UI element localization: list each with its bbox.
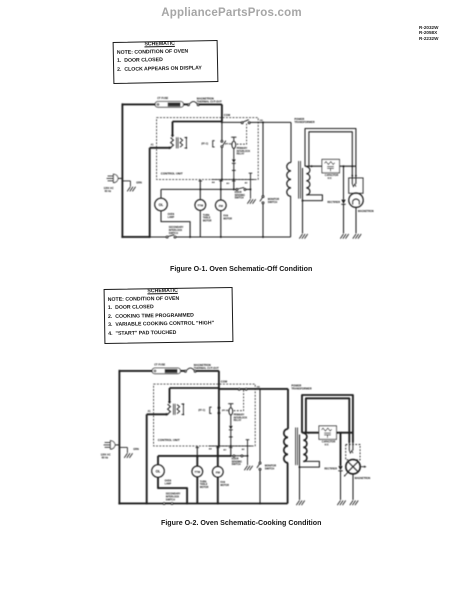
wire latch switch feed bbox=[219, 388, 238, 390]
ground rectifier bbox=[340, 234, 343, 239]
wire latch switch to node GD bbox=[250, 121, 263, 123]
wire plug to rail bbox=[115, 444, 119, 446]
svg-text:RELAY: RELAY bbox=[237, 153, 245, 156]
svg-text:(RY-A): (RY-A) bbox=[225, 142, 232, 145]
control unit U1 enclosure bbox=[157, 118, 259, 180]
svg-text:OL: OL bbox=[156, 470, 161, 474]
wire latch switch to node GD bbox=[247, 388, 260, 390]
mechanical link dashed from latch switch to relay bbox=[236, 124, 246, 145]
svg-text:THERMAL CUT-OUT: THERMAL CUT-OUT bbox=[194, 366, 219, 370]
svg-text:SWITCH: SWITCH bbox=[166, 499, 175, 501]
svg-text:MOTOR: MOTOR bbox=[203, 221, 212, 223]
wire rail through relay contact bbox=[218, 388, 220, 407]
svg-text:OVEN: OVEN bbox=[165, 481, 172, 483]
svg-text:FAN: FAN bbox=[220, 481, 225, 484]
diode D1 in relay chain bbox=[232, 159, 236, 163]
AC plug P1 bbox=[108, 175, 114, 177]
wire latch switch feed bbox=[222, 121, 241, 123]
svg-text:TABLE: TABLE bbox=[203, 217, 211, 220]
svg-text:SWITCH: SWITCH bbox=[268, 201, 278, 204]
wire capacitor output bbox=[336, 432, 353, 434]
wire rail through relay contact bbox=[221, 122, 223, 141]
wire secondary cold end Z-step bbox=[300, 461, 320, 467]
svg-text:H.V.: H.V. bbox=[328, 178, 333, 180]
wire neutral drop to bottom rail bbox=[146, 414, 148, 504]
ground magnetron bbox=[353, 234, 356, 239]
wire motor bus bbox=[158, 455, 231, 457]
relay RY1 coil (primary interlock relay) bbox=[231, 136, 236, 138]
caption figure O-2 bbox=[161, 519, 321, 527]
svg-text:CAPACITOR: CAPACITOR bbox=[325, 174, 339, 177]
terminal tick in relay chain bbox=[232, 169, 236, 171]
magnetron output arrow right bbox=[361, 466, 365, 468]
wire filament winding ground drop bbox=[302, 168, 304, 233]
wire rail down from cut-out corner bbox=[221, 104, 223, 121]
wire capacitor output bbox=[339, 165, 356, 167]
svg-text:GRN: GRN bbox=[133, 448, 139, 451]
diode D1 in relay chain bbox=[229, 426, 233, 430]
magnetron wave arrow lower-left bbox=[345, 472, 348, 476]
wire magnetron to ground bbox=[355, 207, 357, 233]
switch S4 monitor bbox=[262, 196, 264, 198]
svg-text:TURN: TURN bbox=[200, 481, 207, 483]
relay RY1 coil (primary interlock relay) bbox=[228, 403, 233, 405]
wire secondary cold end Z-step bbox=[303, 195, 323, 201]
wire monitor switch branch bbox=[259, 389, 261, 462]
svg-text:MAGNETRON: MAGNETRON bbox=[358, 210, 374, 213]
svg-text:A4: A4 bbox=[209, 448, 213, 451]
svg-text:LAMP: LAMP bbox=[165, 482, 172, 485]
wire TTM to bottom rail bbox=[199, 210, 201, 237]
switch S1 oven latch bbox=[238, 388, 240, 390]
capacitor C1 HV assembly box bbox=[322, 159, 339, 172]
wire oven lamp detour to rail bbox=[161, 211, 190, 237]
transformer T1 secondary HV winding bbox=[306, 167, 310, 195]
fuse F1 (CT FUSE) bbox=[152, 368, 180, 374]
ground chassis (GRN) bbox=[124, 453, 127, 458]
svg-text:TABLE: TABLE bbox=[200, 483, 208, 486]
wire terminal row bbox=[211, 179, 255, 181]
wire LVT return to neutral bbox=[150, 147, 170, 149]
wire left rail (line side) bbox=[118, 370, 120, 505]
svg-text:FAN: FAN bbox=[223, 215, 228, 218]
wire fuse to thermal cut-out bbox=[180, 370, 184, 372]
terminal tick A2 bbox=[229, 447, 233, 449]
thermal cut-out TC1 (magnetron thermal cut-out) bbox=[184, 370, 186, 372]
ground stub at door switch bbox=[250, 189, 252, 198]
transformer T2 LVT (low voltage) bbox=[168, 404, 171, 414]
ground transformer secondary bbox=[296, 501, 299, 506]
svg-text:CT FUSE: CT FUSE bbox=[157, 96, 168, 100]
svg-text:LAMP: LAMP bbox=[168, 216, 175, 219]
svg-text:MOTOR: MOTOR bbox=[223, 218, 232, 220]
svg-text:INTERLOCK: INTERLOCK bbox=[169, 230, 183, 232]
svg-text:A2: A2 bbox=[245, 181, 249, 184]
node GD junction bbox=[262, 121, 264, 123]
svg-text:60 Hz: 60 Hz bbox=[105, 190, 112, 193]
wire primary return to bottom rail bbox=[287, 463, 289, 504]
wire bottom rail bold segment bbox=[118, 502, 146, 504]
fan motor FM bbox=[220, 189, 222, 200]
wire bottom rail neutral bbox=[150, 236, 166, 238]
oven lamp OL bbox=[157, 456, 159, 465]
wire fuse to thermal cut-out bbox=[183, 103, 187, 105]
wire monitor switch to bottom rail bbox=[262, 204, 264, 237]
terminal tick A3 bbox=[216, 447, 220, 449]
wire primary return to bottom rail bbox=[290, 196, 292, 237]
terminal tick A4 bbox=[199, 180, 203, 182]
magnetron tube bbox=[349, 193, 363, 207]
turntable motor TTM bbox=[196, 456, 198, 466]
model number list bbox=[419, 25, 438, 42]
svg-text:GD: GD bbox=[260, 120, 264, 122]
wire relay chain drop bbox=[233, 180, 235, 190]
transformer core bbox=[295, 428, 297, 466]
svg-text:MAGNETRON: MAGNETRON bbox=[355, 477, 371, 480]
wire motor bus bbox=[161, 188, 234, 190]
svg-text:TURN: TURN bbox=[203, 215, 210, 217]
ground magnetron bbox=[350, 501, 353, 506]
wire to power transformer primary bbox=[263, 121, 291, 123]
wire monitor switch to bottom rail bbox=[259, 470, 261, 503]
thermal cut-out TC1 (magnetron thermal cut-out) bbox=[187, 104, 189, 106]
wire bold feed to LVT primary top bbox=[173, 121, 222, 123]
magnetron filament leads bbox=[348, 441, 350, 443]
svg-text:RELAY: RELAY bbox=[234, 419, 242, 422]
wire filament lead A riser bbox=[302, 395, 353, 442]
wire rail below contact to terminal row bbox=[218, 414, 220, 446]
magnetron tube bbox=[346, 460, 360, 474]
ground rectifier bbox=[337, 501, 340, 506]
turntable motor TTM bbox=[199, 189, 201, 199]
AC plug P1 bbox=[105, 442, 111, 444]
wire HV tap to capacitor bbox=[302, 432, 319, 434]
wire TTM drop from control unit bbox=[196, 446, 198, 456]
wire filament lead B riser bbox=[309, 132, 352, 176]
wire filament lead A riser bbox=[305, 129, 356, 176]
svg-text:COM: COM bbox=[224, 113, 231, 117]
svg-text:DOOR: DOOR bbox=[235, 192, 242, 194]
svg-text:OVEN: OVEN bbox=[168, 214, 175, 216]
wire top feed from plug rail to fuse bbox=[122, 103, 155, 105]
wire FM drop from control unit bbox=[220, 180, 222, 190]
transformer T1 primary winding bbox=[287, 162, 291, 196]
ground chassis (GRN) bbox=[127, 187, 130, 192]
wire left rail (line side) bbox=[121, 103, 123, 238]
control unit U1 enclosure bbox=[154, 384, 256, 446]
switch S3 door sensing bbox=[233, 455, 235, 457]
svg-text:SECONDARY: SECONDARY bbox=[169, 226, 184, 229]
svg-text:SENSING: SENSING bbox=[232, 461, 243, 463]
svg-text:CONTROL UNIT: CONTROL UNIT bbox=[161, 171, 183, 175]
svg-text:SWITCH: SWITCH bbox=[232, 464, 241, 466]
svg-text:TRANSFORMER: TRANSFORMER bbox=[291, 386, 311, 390]
wire bus to door sensing switch bbox=[234, 188, 236, 190]
wire filament winding ground drop bbox=[299, 435, 301, 500]
wire TTM to bottom rail bbox=[196, 477, 198, 504]
wire neutral drop to bottom rail bbox=[149, 148, 151, 238]
ground stub at door switch bbox=[247, 456, 249, 465]
svg-text:INTERLOCK: INTERLOCK bbox=[234, 417, 248, 419]
svg-text:INTERLOCK: INTERLOCK bbox=[166, 497, 180, 499]
svg-text:A3: A3 bbox=[226, 182, 230, 185]
wire FM to bottom rail bbox=[217, 477, 219, 503]
svg-text:SENSING: SENSING bbox=[235, 195, 246, 197]
svg-text:TTM: TTM bbox=[195, 470, 201, 474]
switch S3 door sensing bbox=[236, 188, 238, 190]
transformer T1 secondary HV winding bbox=[303, 433, 307, 461]
note box 1: schematic off-condition notes bbox=[112, 39, 218, 83]
wire magnetron to ground bbox=[352, 474, 354, 500]
svg-text:GRN: GRN bbox=[136, 181, 142, 184]
svg-text:SWITCH: SWITCH bbox=[235, 198, 244, 200]
magnetron V1 housing bbox=[349, 178, 363, 193]
transformer T2 LVT (low voltage) bbox=[171, 138, 174, 148]
svg-text:A3: A3 bbox=[223, 449, 227, 452]
oven lamp OL bbox=[160, 189, 162, 198]
wire TTM drop from control unit bbox=[199, 180, 201, 190]
wire GRN ground stub bbox=[122, 180, 130, 182]
mechanical link dashed from latch switch to relay bbox=[233, 390, 243, 411]
wire bus to door sensing switch bbox=[231, 455, 233, 457]
wire HV tap to capacitor bbox=[305, 165, 322, 167]
svg-text:TTM: TTM bbox=[198, 204, 204, 208]
wire bottom rail bold segment bbox=[121, 236, 149, 238]
switch S1 oven latch bbox=[241, 122, 243, 124]
svg-text:TRANSFORMER: TRANSFORMER bbox=[294, 120, 314, 124]
svg-text:RECTIFIER: RECTIFIER bbox=[327, 201, 340, 204]
wire monitor switch branch bbox=[262, 122, 264, 195]
wire thermal cut-out to rail corner bbox=[196, 370, 219, 372]
wire top feed from plug rail to fuse bbox=[119, 370, 152, 372]
wire door switch to junction bbox=[243, 455, 248, 457]
note box 2: schematic cooking-condition notes bbox=[103, 287, 233, 344]
svg-text:FM: FM bbox=[216, 470, 221, 474]
transformer core bbox=[298, 161, 300, 199]
svg-text:A2: A2 bbox=[242, 448, 246, 451]
wire rail down from cut-out corner bbox=[218, 371, 220, 388]
svg-text:RECTIFIER: RECTIFIER bbox=[324, 468, 337, 471]
wire door switch to junction bbox=[246, 188, 251, 190]
svg-text:A1: A1 bbox=[151, 143, 155, 146]
svg-text:CAPACITOR: CAPACITOR bbox=[322, 441, 336, 444]
svg-text:H.V.: H.V. bbox=[325, 445, 330, 447]
wire FM to bottom rail bbox=[220, 211, 222, 237]
svg-text:PRIMARY: PRIMARY bbox=[234, 414, 245, 417]
caption figure O-1 bbox=[170, 265, 312, 273]
wire bold feed to LVT primary top bbox=[170, 387, 219, 389]
switch S2 secondary interlock on bottom rail bbox=[166, 236, 168, 238]
svg-text:MOTOR: MOTOR bbox=[220, 485, 229, 487]
terminal tick in relay chain bbox=[229, 436, 233, 438]
capacitor C1 HV assembly box bbox=[319, 426, 336, 439]
svg-text:FM: FM bbox=[219, 204, 224, 208]
svg-text:SWITCH: SWITCH bbox=[265, 468, 275, 471]
svg-text:GD: GD bbox=[257, 387, 261, 389]
wire oven lamp detour to rail bbox=[158, 477, 187, 503]
wire plug to rail bbox=[118, 177, 122, 179]
fan motor FM bbox=[217, 456, 219, 467]
fuse F1 (CT FUSE) bbox=[155, 102, 183, 108]
wire LVT return to neutral bbox=[147, 413, 167, 415]
rectifier D2 (HV diode) bbox=[340, 433, 342, 466]
svg-text:SECONDARY: SECONDARY bbox=[166, 493, 181, 496]
watermark header bbox=[0, 7, 463, 19]
wire FM drop from control unit bbox=[217, 446, 219, 456]
node door switch junction bbox=[247, 455, 249, 457]
node door switch junction bbox=[250, 188, 252, 190]
switch S4 monitor bbox=[259, 462, 261, 464]
wire relay chain drop bbox=[230, 446, 232, 456]
magnetron filament leads bbox=[351, 175, 353, 177]
svg-text:60 Hz: 60 Hz bbox=[102, 457, 109, 460]
terminal tick A2 bbox=[232, 180, 236, 182]
svg-text:(FF-C): (FF-C) bbox=[198, 410, 205, 412]
svg-text:A1: A1 bbox=[148, 410, 152, 413]
wire thermal cut-out to rail corner bbox=[199, 103, 222, 105]
svg-text:COM: COM bbox=[221, 380, 228, 384]
svg-text:MOTOR: MOTOR bbox=[200, 487, 209, 489]
wire terminal row bbox=[208, 445, 252, 447]
switch S2 secondary interlock on bottom rail bbox=[163, 503, 165, 505]
wire primary feed down bbox=[290, 122, 292, 162]
svg-text:PRIMARY: PRIMARY bbox=[237, 147, 248, 150]
terminal tick A3 bbox=[219, 180, 223, 182]
node GD junction bbox=[259, 388, 261, 390]
svg-text:CONTROL UNIT: CONTROL UNIT bbox=[158, 438, 180, 442]
magnetron V1 housing bbox=[346, 444, 360, 459]
transformer T1 primary winding bbox=[284, 429, 288, 463]
wire rail below contact to terminal row bbox=[221, 148, 223, 180]
wire primary feed down bbox=[287, 389, 289, 429]
svg-text:A4: A4 bbox=[212, 181, 216, 184]
wire bottom rail neutral bbox=[147, 503, 163, 505]
svg-text:OL: OL bbox=[159, 203, 164, 207]
svg-text:DOOR: DOOR bbox=[232, 459, 239, 461]
ground transformer secondary bbox=[299, 234, 302, 239]
wire to power transformer primary bbox=[260, 388, 288, 390]
terminal T-bar above junction bbox=[249, 172, 253, 174]
svg-text:INTERLOCK: INTERLOCK bbox=[237, 151, 251, 153]
terminal T-bar above junction bbox=[246, 439, 250, 441]
svg-text:CT FUSE: CT FUSE bbox=[154, 363, 165, 367]
rectifier D2 (HV diode) bbox=[343, 166, 345, 199]
wire GRN ground stub bbox=[119, 446, 127, 448]
wire filament lead B riser bbox=[306, 398, 349, 442]
svg-text:(RY-A): (RY-A) bbox=[222, 409, 229, 412]
svg-text:(FF-C): (FF-C) bbox=[201, 143, 208, 145]
svg-text:THERMAL CUT-OUT: THERMAL CUT-OUT bbox=[197, 100, 222, 104]
terminal tick A4 bbox=[196, 447, 200, 449]
